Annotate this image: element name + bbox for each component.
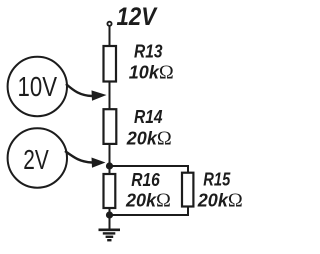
svg-text:R15: R15 <box>203 169 231 189</box>
svg-text:20kΩ: 20kΩ <box>197 190 243 212</box>
voltage annotation circle 10V <box>8 57 67 116</box>
node junction (ground node) <box>106 211 113 218</box>
svg-text:10kΩ: 10kΩ <box>129 62 174 84</box>
wire R13 to R14 <box>109 82 111 111</box>
wire R16 bottom to ground node <box>109 208 111 215</box>
resistor R16 <box>104 174 116 208</box>
arrow from 2V to node <box>65 151 106 168</box>
svg-text:10V: 10V <box>18 71 58 102</box>
svg-text:20kΩ: 20kΩ <box>125 189 171 211</box>
terminal node 12V (open circle) <box>107 22 111 26</box>
wire node to R15 top <box>110 166 189 174</box>
arrow from 10V to R13-R14 wire <box>66 84 107 101</box>
ground <box>99 215 121 240</box>
svg-text:2V: 2V <box>23 144 49 175</box>
resistor R13 <box>104 46 117 82</box>
resistor R14 <box>104 109 117 144</box>
resistor R15 <box>182 173 193 207</box>
svg-text:12V: 12V <box>117 3 159 31</box>
svg-text:20kΩ: 20kΩ <box>126 127 172 149</box>
svg-text:R14: R14 <box>134 107 163 127</box>
wire R14 to node <box>109 144 111 166</box>
node junction (2V node) <box>106 162 113 169</box>
svg-text:R13: R13 <box>134 42 163 62</box>
svg-text:R16: R16 <box>131 170 160 190</box>
voltage annotation circle 2V <box>8 128 67 187</box>
wire: 12V terminal down to R13 <box>109 27 111 48</box>
wire ground node to R15 bottom <box>110 207 189 216</box>
wire node to R16 top <box>109 166 111 175</box>
